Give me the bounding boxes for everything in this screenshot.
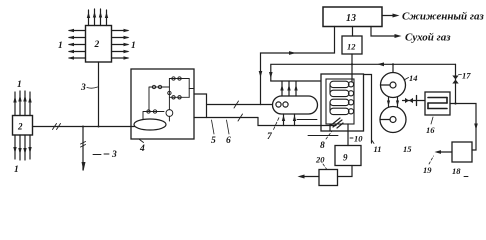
break marks on drain [81, 142, 86, 148]
svg-text:12: 12 [347, 42, 356, 52]
svg-text:10: 10 [354, 134, 363, 144]
air arrows above burner [280, 82, 297, 97]
short lines under burner [297, 119, 317, 121]
svg-text:20: 20 [315, 155, 325, 165]
fuel gas line L2 [271, 64, 456, 81]
label 10 [350, 137, 353, 139]
pipe 5 into burner [261, 104, 273, 106]
svg-text:2: 2 [94, 40, 100, 50]
pipe 6 [194, 117, 258, 119]
grate marks [330, 118, 343, 128]
internal piping of unit 4 [143, 77, 194, 121]
svg-text:1: 1 [14, 165, 19, 175]
link 13 to 12 [352, 27, 354, 37]
svg-text:18: 18 [452, 166, 461, 176]
main feed line from lower box to unit 4 [33, 126, 135, 128]
right exhaust arrows of upper box [112, 29, 130, 60]
blower 15 [380, 107, 406, 133]
pipe break marks on feed line [53, 124, 61, 130]
leader for label 3 [87, 87, 98, 88]
valve 17 line [455, 64, 457, 103]
svg-text:Сухой газ: Сухой газ [405, 32, 451, 44]
svg-text:17: 17 [462, 71, 471, 81]
arrows below burner [282, 114, 296, 126]
svg-text:2: 2 [17, 122, 23, 132]
generator inner box [326, 79, 354, 124]
label 17 [459, 74, 462, 76]
svg-text:11: 11 [374, 144, 382, 154]
svg-text:3: 3 [111, 150, 117, 160]
link 12 down into generator [351, 54, 353, 82]
liquefied gas outlet arrow [382, 15, 393, 17]
unit 20 [319, 170, 338, 186]
L2 branch over burner [271, 80, 321, 82]
blower 14 [381, 73, 406, 98]
svg-text:13: 13 [346, 13, 356, 24]
valve cluster to cooler [403, 100, 426, 102]
unit 9 [335, 146, 361, 166]
svg-text:5: 5 [211, 136, 216, 146]
retort tubes with burners [330, 81, 354, 114]
unit 4 (gas distribution box) [131, 69, 194, 139]
drain 19 from tank 18 [437, 151, 452, 153]
svg-text:19: 19 [423, 165, 432, 175]
svg-text:7: 7 [267, 132, 273, 142]
label 3 (lower, with dashes) [93, 153, 109, 156]
pipe 5 [207, 104, 261, 106]
svg-text:3: 3 [80, 83, 86, 93]
drain line with arrow [82, 127, 84, 171]
svg-text:15: 15 [403, 144, 412, 154]
pipe 3 stem from upper box down [98, 62, 100, 127]
label 14 [404, 78, 409, 81]
unit 12 [342, 36, 362, 54]
dry gas outlet [371, 27, 395, 37]
retort left manifold segments [329, 84, 331, 111]
separator drum (oval) in unit 4 [134, 119, 166, 130]
pipe 6 drop and under-burner manifold [258, 118, 336, 126]
ash pipe 10 down to unit 9 [347, 124, 349, 146]
svg-text:1: 1 [58, 41, 63, 51]
svg-text:14: 14 [409, 73, 418, 83]
bottom arrows of lower box [13, 135, 31, 160]
links between blowers [387, 98, 399, 107]
scrubber 13 [323, 7, 382, 27]
svg-text:4: 4 [139, 144, 145, 154]
cooler 16 [425, 92, 450, 115]
outlet header of unit 4 [194, 94, 207, 118]
tank 18 [452, 142, 472, 162]
top arrows of lower box [13, 91, 31, 116]
flue duct 11 from generator top [364, 75, 372, 144]
svg-text:1: 1 [131, 41, 136, 51]
left exhaust arrows of upper box [68, 29, 86, 60]
apparatus 2 (upper regenerator box) [86, 26, 112, 63]
svg-text:Сжиженный газ: Сжиженный газ [402, 11, 484, 23]
apparatus 2 (lower regenerator box) [13, 116, 33, 136]
svg-text:16: 16 [426, 125, 435, 135]
svg-text:9: 9 [343, 153, 348, 163]
top exhaust arrows of upper box [87, 9, 108, 26]
stub L2 to blower 14 [392, 64, 394, 72]
discharge arrow from 20 [302, 176, 319, 178]
svg-text:6: 6 [226, 136, 231, 146]
junction dots [82, 63, 457, 127]
burner 7 (capsule) [273, 96, 318, 114]
svg-text:8: 8 [320, 141, 325, 151]
cooler outlet to tank 18 [450, 104, 476, 151]
gas generator outer box [321, 74, 364, 131]
recycle line L1 to scrubber 13 [261, 27, 335, 105]
svg-text:1: 1 [17, 80, 22, 90]
bottom stub of inner box [329, 124, 331, 131]
valve 17 [452, 76, 458, 84]
elbow from 9 to 20 [338, 166, 353, 177]
